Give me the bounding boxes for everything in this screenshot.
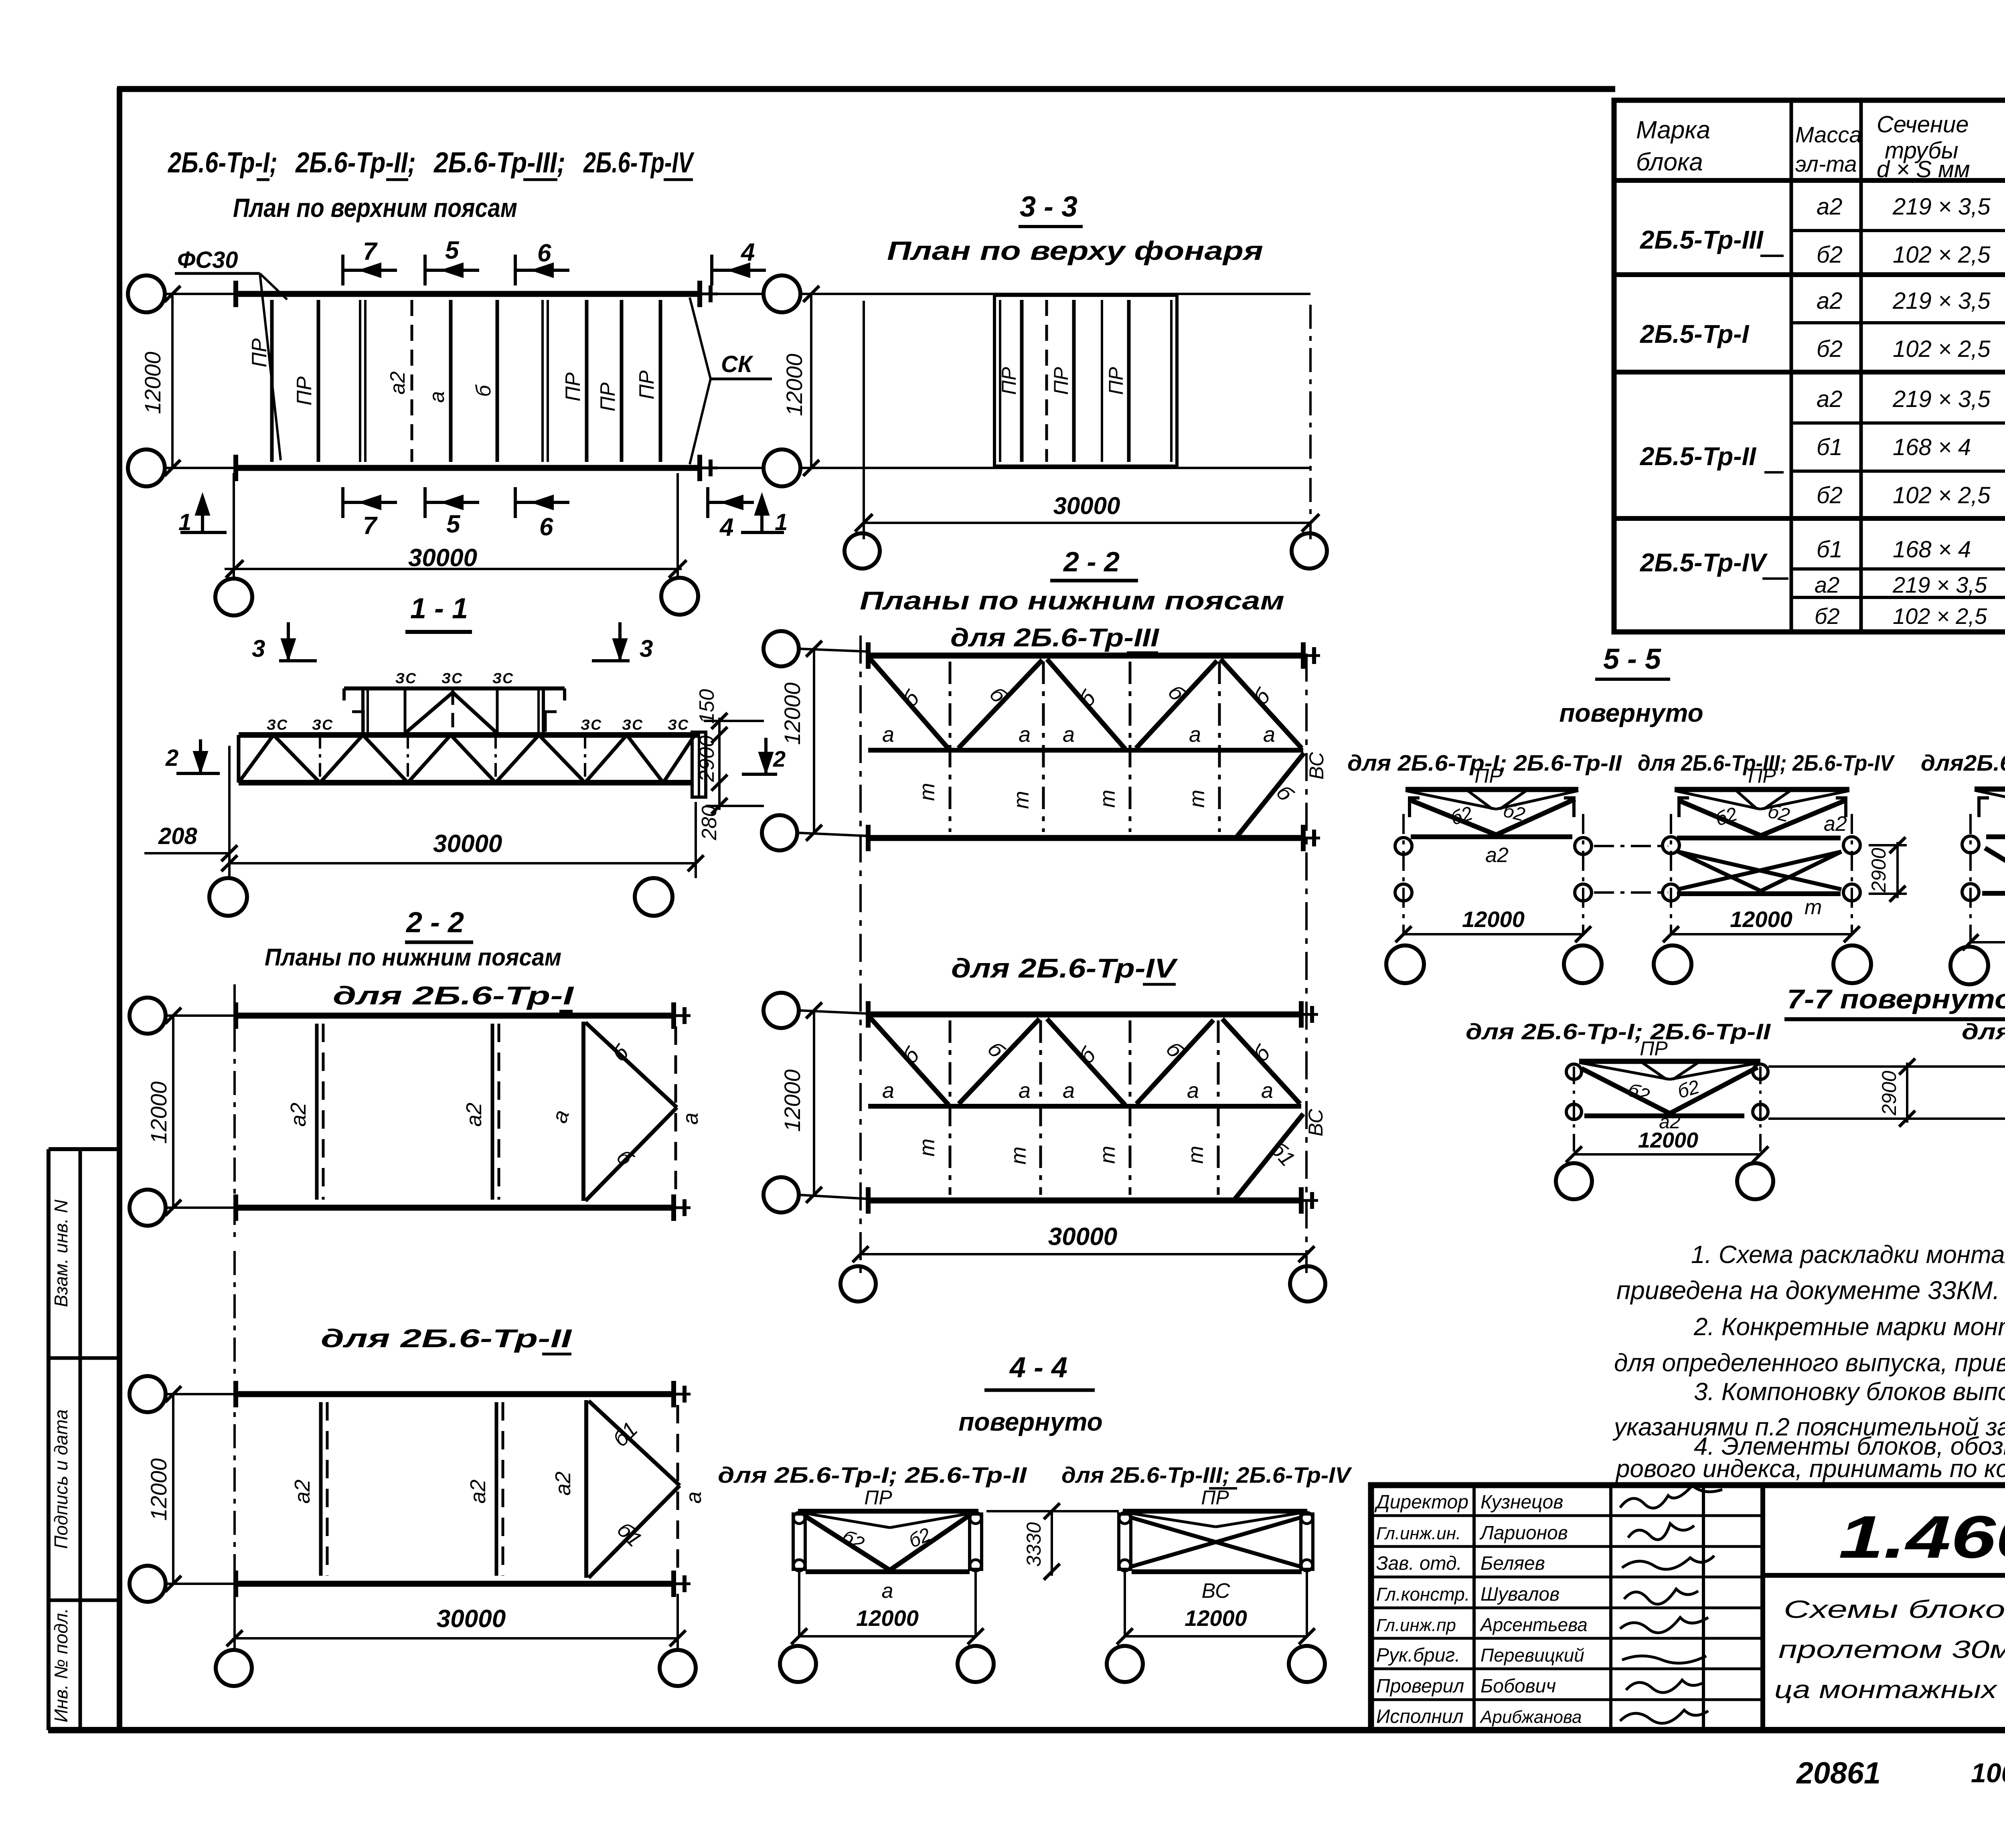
svg-text:Ларионов: Ларионов	[1479, 1522, 1568, 1544]
svg-text:б: б	[472, 385, 495, 397]
svg-text:3: 3	[640, 635, 653, 662]
svg-text:4: 4	[719, 514, 733, 541]
right dim 150 2900 280	[704, 713, 764, 814]
left axis circles	[764, 631, 799, 666]
end symbols	[866, 1001, 871, 1028]
lantern corner brackets	[352, 712, 363, 732]
svg-text:а2: а2	[1485, 844, 1509, 867]
3330 dim	[986, 1503, 1119, 1580]
svg-text:т: т	[1804, 896, 1822, 919]
svg-text:ЗС: ЗС	[622, 717, 644, 733]
svg-text:2Б.5-Тр-I: 2Б.5-Тр-I	[1640, 320, 1750, 348]
svg-text:для 2Б.6-Тр-IV: для 2Б.6-Тр-IV	[951, 953, 1179, 984]
SK leader	[711, 378, 772, 381]
svg-text:б2: б2	[1817, 482, 1843, 508]
svg-text:а2: а2	[286, 1103, 310, 1127]
svg-text:168 × 4: 168 × 4	[1893, 536, 1971, 563]
svg-text:3 - 3: 3 - 3	[1020, 191, 1077, 223]
svg-text:ВС: ВС	[1304, 1109, 1327, 1136]
svg-text:2 - 2: 2 - 2	[405, 907, 464, 939]
svg-text:2: 2	[165, 745, 178, 771]
svg-text:блока: блока	[1636, 148, 1703, 176]
svg-text:3: 3	[252, 635, 265, 662]
svg-text:1: 1	[775, 509, 788, 535]
svg-text:ЗС: ЗС	[492, 670, 514, 686]
svg-text:Исполнил: Исполнил	[1376, 1706, 1464, 1727]
svg-text:ЗС: ЗС	[442, 670, 463, 686]
dim lines left	[165, 293, 236, 295]
svg-text:а: а	[1019, 723, 1031, 747]
long axes	[859, 636, 862, 1273]
grid circle left bottom	[764, 449, 800, 486]
svg-text:102 × 2,5: 102 × 2,5	[1893, 603, 1987, 629]
svg-text:12000: 12000	[780, 682, 805, 745]
svg-text:т: т	[915, 1139, 939, 1157]
svg-text:ПР: ПР	[596, 383, 620, 412]
svg-text:1. Схема раскладки монтажных: 1. Схема раскладки монтажных блоков покр…	[1691, 1241, 2005, 1269]
top chord	[868, 653, 1303, 659]
lantern box edges	[993, 294, 996, 468]
svg-text:6: 6	[537, 239, 551, 267]
svg-text:ПР: ПР	[293, 376, 316, 406]
svg-text:ЗС: ЗС	[668, 717, 689, 733]
svg-text:а: а	[1189, 723, 1201, 747]
svg-text:Марка: Марка	[1636, 116, 1710, 144]
svg-text:а2: а2	[551, 1472, 575, 1496]
svg-text:а: а	[425, 391, 449, 403]
svg-text:а2: а2	[290, 1480, 314, 1504]
svg-text:ПР: ПР	[248, 338, 271, 368]
svg-text:Гл.констр.: Гл.констр.	[1376, 1584, 1470, 1605]
svg-text:Арибжанова: Арибжанова	[1479, 1707, 1582, 1727]
svg-text:7: 7	[363, 238, 378, 265]
svg-text:для 2Б.6-Тр-III; 2Б.6-Тр-IV: для 2Б.6-Тр-III; 2Б.6-Тр-IV	[1061, 1462, 1353, 1488]
svg-text:219 × 3,5: 219 × 3,5	[1892, 194, 1991, 220]
svg-text:30000: 30000	[433, 830, 502, 858]
svg-text:Арсентьева: Арсентьева	[1479, 1614, 1588, 1635]
section 3 markers	[279, 622, 630, 661]
svg-text:7-7 повернуто: 7-7 повернуто	[1787, 984, 2005, 1014]
svg-text:100: 100	[1971, 1758, 2005, 1788]
svg-text:а: а	[1187, 1079, 1199, 1103]
svg-text:Гл.инж.ин.: Гл.инж.ин.	[1376, 1524, 1461, 1543]
svg-text:Схемы блоков 2Б.6-Тр: Схемы блоков 2Б.6-Тр	[1784, 1596, 2005, 1623]
svg-text:ПР: ПР	[1474, 765, 1503, 787]
marker 2	[742, 738, 777, 774]
svg-text:Взам. инв. N: Взам. инв. N	[51, 1199, 71, 1307]
svg-text:приведена на документе 33КМ.: приведена на документе 33КМ.	[1616, 1276, 2000, 1305]
svg-text:5: 5	[446, 510, 461, 538]
mid chord a	[868, 748, 1303, 753]
truss top chord	[239, 732, 699, 738]
circles below	[845, 533, 880, 569]
svg-text:для 2Б.6-Тр-II: для 2Б.6-Тр-II	[321, 1324, 572, 1353]
svg-text:Перевицкий: Перевицкий	[1480, 1645, 1584, 1666]
svg-text:а: а	[1063, 1079, 1075, 1103]
svg-text:б2: б2	[1817, 242, 1843, 268]
svg-text:12000: 12000	[1185, 1605, 1247, 1631]
svg-text:ПР: ПР	[1640, 1037, 1668, 1060]
grid circle left top	[764, 275, 800, 312]
svg-text:т: т	[1007, 1147, 1031, 1165]
verticals	[949, 1020, 952, 1195]
svg-text:219 × 3,5: 219 × 3,5	[1892, 572, 1987, 597]
svg-text:102 × 2,5: 102 × 2,5	[1893, 336, 1991, 362]
top chord	[236, 1013, 674, 1019]
svg-text:2 - 2: 2 - 2	[1063, 546, 1120, 577]
svg-text:ЗС: ЗС	[267, 717, 288, 733]
axis dashdot	[233, 1251, 236, 1644]
svg-text:для 2Б.6-Тр-III: для 2Б.6-Тр-III	[950, 623, 1159, 652]
svg-text:а: а	[882, 1579, 893, 1603]
svg-text:Зав. отд.: Зав. отд.	[1376, 1553, 1462, 1574]
svg-text:б2: б2	[1817, 336, 1843, 362]
svg-text:т: т	[1184, 1146, 1208, 1164]
svg-text:Инв. № подл.: Инв. № подл.	[51, 1608, 71, 1722]
svg-text:30000: 30000	[1053, 492, 1120, 519]
end symbols	[233, 1002, 238, 1029]
svg-text:План по верхним поясам: План по верхним поясам	[233, 193, 517, 223]
svg-text:для определенного выпуска, при: для определенного выпуска, приведены на …	[1614, 1349, 2005, 1377]
svg-text:ПР: ПР	[1050, 367, 1072, 395]
svg-text:ЗС: ЗС	[581, 717, 602, 733]
svg-text:а: а	[678, 1113, 703, 1125]
svg-text:Проверил: Проверил	[1376, 1676, 1464, 1697]
svg-text:280: 280	[698, 806, 721, 841]
lantern braces	[405, 692, 453, 733]
svg-text:СК: СК	[721, 351, 753, 377]
svg-text:2. Конкретные марки монтажных: 2. Конкретные марки монтажных блоков, пр…	[1693, 1313, 2005, 1341]
svg-text:т: т	[1009, 791, 1033, 809]
chord end symbols	[233, 281, 238, 307]
grid circles	[130, 1376, 166, 1412]
title block outer	[1371, 1485, 2005, 1730]
grid circle A-left-top	[128, 275, 165, 312]
svg-text:ПР: ПР	[864, 1486, 892, 1509]
triangle web	[581, 1022, 585, 1201]
right dashed edge	[674, 1026, 677, 1197]
table outer border	[1614, 100, 2005, 632]
svg-text:а2: а2	[462, 1103, 486, 1127]
svg-text:12000: 12000	[1730, 907, 1792, 932]
svg-text:а: а	[882, 1079, 894, 1103]
svg-text:т: т	[1096, 1146, 1120, 1164]
grid lines	[800, 293, 1310, 295]
svg-text:а2: а2	[1817, 386, 1843, 412]
a2 verticals	[315, 1024, 319, 1200]
frame top border	[117, 86, 1615, 92]
svg-text:6: 6	[539, 513, 553, 541]
svg-text:2Б.6-Тр-IV: 2Б.6-Тр-IV	[583, 147, 695, 179]
svg-text:ПР: ПР	[1105, 367, 1127, 395]
svg-text:т: т	[1185, 790, 1209, 808]
svg-text:12000: 12000	[140, 352, 165, 414]
svg-text:ПР: ПР	[1201, 1486, 1229, 1509]
svg-text:План по верху фонаря: План по верху фонаря	[887, 236, 1263, 265]
svg-text:4 - 4: 4 - 4	[1009, 1352, 1067, 1384]
svg-text:168 × 4: 168 × 4	[1893, 434, 1971, 460]
svg-text:Гл.инж.пр: Гл.инж.пр	[1376, 1615, 1456, 1635]
section markers top	[343, 255, 766, 285]
frame left border	[117, 87, 122, 1730]
svg-text:2Б.5-Тр-III: 2Б.5-Тр-III	[1640, 225, 1764, 254]
svg-text:1.460.3-19-74КМ: 1.460.3-19-74КМ	[1839, 1503, 2005, 1571]
svg-text:ПР: ПР	[998, 367, 1020, 395]
end symbols	[233, 1381, 238, 1407]
truss bottom chord	[239, 780, 693, 785]
bottom chord	[868, 835, 1303, 841]
svg-text:5 - 5: 5 - 5	[1603, 643, 1661, 675]
svg-text:7: 7	[363, 512, 378, 540]
svg-text:для 2Б.6-Тр-III ; 2Б.6-Тр-: для 2Б.6-Тр-III ; 2Б.6-Тр-IV	[1962, 1019, 2005, 1044]
svg-text:2900: 2900	[1878, 1071, 1900, 1115]
svg-text:2: 2	[773, 746, 786, 771]
svg-text:3330: 3330	[1023, 1522, 1045, 1567]
svg-text:4: 4	[740, 239, 755, 266]
doc number cell	[1763, 1573, 2005, 1578]
svg-text:Бобович: Бобович	[1480, 1676, 1556, 1697]
svg-text:2Б.5-Тр-IV: 2Б.5-Тр-IV	[1640, 548, 1768, 577]
svg-text:Подпись и дата: Подпись и дата	[51, 1409, 71, 1549]
column lines	[1790, 100, 1793, 632]
bottom chord	[236, 465, 700, 471]
purlin lines	[270, 300, 274, 462]
svg-text:т: т	[1096, 790, 1120, 808]
title block rows	[1371, 1514, 1763, 1517]
svg-text:эл-та: эл-та	[1795, 151, 1857, 176]
svg-text:102 × 2,5: 102 × 2,5	[1893, 242, 1991, 268]
svg-text:1: 1	[178, 509, 191, 535]
web verticals	[319, 735, 321, 783]
svg-text:а: а	[1263, 723, 1275, 747]
svg-text:219 × 3,5: 219 × 3,5	[1892, 386, 1991, 412]
svg-text:2900: 2900	[1867, 848, 1890, 893]
mid chord	[868, 1104, 1301, 1109]
svg-text:2Б.6-Тр-II;: 2Б.6-Тр-II;	[295, 147, 416, 179]
diagonals b	[869, 658, 949, 749]
FS30 leader	[175, 272, 260, 275]
svg-text:а2: а2	[1815, 572, 1839, 597]
svg-text:ВС: ВС	[1305, 752, 1328, 779]
dim 208 and 30000	[144, 746, 704, 878]
grid circle A-left-bottom	[128, 449, 165, 486]
bottom chord	[236, 1581, 674, 1587]
top chord	[236, 291, 700, 297]
circles below	[215, 579, 252, 615]
stamp boxes	[47, 1149, 51, 1730]
dim lines	[166, 1014, 236, 1017]
lantern purlins	[1020, 300, 1024, 462]
svg-text:а: а	[1019, 1079, 1031, 1103]
svg-text:а2: а2	[1817, 288, 1843, 314]
lantern verticals	[361, 690, 365, 735]
svg-text:Беляев: Беляев	[1480, 1553, 1545, 1574]
svg-text:2Б.5-Тр-II: 2Б.5-Тр-II	[1640, 442, 1756, 471]
svg-text:т: т	[915, 783, 939, 801]
svg-text:208: 208	[158, 823, 198, 849]
svg-text:12000: 12000	[1638, 1128, 1698, 1152]
svg-text:Директор: Директор	[1374, 1492, 1468, 1513]
a2 verticals	[319, 1402, 323, 1576]
30000 dim	[863, 301, 865, 539]
svg-text:ПР: ПР	[1748, 765, 1776, 787]
bottom chord	[236, 1205, 674, 1211]
svg-text:20861: 20861	[1796, 1756, 1881, 1790]
30000 dim	[233, 473, 235, 579]
svg-text:30000: 30000	[1048, 1223, 1117, 1251]
lantern top	[344, 686, 565, 690]
diagonals	[869, 1017, 949, 1105]
web diagonals	[239, 735, 694, 783]
svg-text:ФС30: ФС30	[177, 247, 238, 273]
svg-text:2Б.6-Тр-III;: 2Б.6-Тр-III;	[433, 147, 565, 179]
svg-text:для 2Б.6-Тр-I; 2Б.6-Тр-II: для 2Б.6-Тр-I; 2Б.6-Тр-II	[718, 1462, 1027, 1488]
svg-text:30000: 30000	[437, 1605, 506, 1633]
svg-text:2900: 2900	[695, 735, 719, 782]
svg-text:ЗС: ЗС	[395, 670, 417, 686]
svg-text:102 × 2,5: 102 × 2,5	[1893, 482, 1991, 508]
svg-text:для 2Б.6-Тр-I: для 2Б.6-Тр-I	[333, 981, 574, 1010]
2900 dim between	[1768, 1059, 2005, 1127]
svg-text:а2: а2	[466, 1480, 490, 1504]
svg-text:Шувалов: Шувалов	[1480, 1584, 1559, 1605]
30000 dim	[861, 1253, 1306, 1255]
svg-text:рового индекса, принимать по к: рового индекса, принимать по конкретному…	[1615, 1455, 2005, 1483]
svg-text:б1: б1	[1817, 536, 1843, 563]
svg-text:а2: а2	[386, 371, 409, 395]
svg-text:12000: 12000	[856, 1605, 919, 1631]
svg-text:пролетом 30м и табли-: пролетом 30м и табли-	[1778, 1636, 2005, 1664]
title block columns	[1472, 1485, 1476, 1730]
svg-text:а: а	[1261, 1079, 1273, 1103]
svg-text:Рук.бриг.: Рук.бриг.	[1376, 1645, 1460, 1666]
top chord	[236, 1391, 674, 1397]
svg-text:150: 150	[695, 689, 719, 724]
grid circles	[130, 998, 166, 1034]
svg-text:а: а	[1063, 723, 1075, 747]
svg-text:а: а	[682, 1492, 706, 1504]
svg-text:ВС: ВС	[1201, 1579, 1230, 1603]
svg-text:219 × 3,5: 219 × 3,5	[1892, 288, 1991, 314]
svg-text:2Б.6-Тр-I;: 2Б.6-Тр-I;	[167, 147, 277, 179]
svg-text:б1: б1	[1817, 434, 1843, 460]
svg-text:а: а	[882, 723, 894, 747]
web verticals dashdot	[949, 662, 952, 832]
svg-text:для2Б.6-Тр-I;2Б.6-Тр-II: для2Б.6-Тр-I;2Б.6-Тр-II	[1921, 750, 2005, 775]
axis dashdot	[233, 984, 236, 1239]
right stub lines to grid circles	[718, 293, 764, 295]
top chord	[868, 1012, 1301, 1018]
svg-text:1 - 1: 1 - 1	[410, 593, 468, 625]
svg-text:Сечение: Сечение	[1877, 111, 1969, 138]
circles below 1-1	[209, 878, 247, 916]
bottom chord	[868, 1198, 1301, 1204]
end symbols	[866, 642, 871, 669]
svg-text:12000: 12000	[782, 354, 807, 416]
triangle web	[584, 1400, 588, 1578]
row dividers	[1791, 229, 2005, 232]
svg-text:d × S мм: d × S мм	[1877, 156, 1970, 182]
svg-text:ЗС: ЗС	[312, 717, 334, 733]
svg-text:повернуто: повернуто	[1559, 698, 1703, 727]
svg-text:5: 5	[445, 237, 460, 264]
frame bottom border	[48, 1727, 2005, 1733]
30000 dim	[233, 1594, 236, 1652]
svg-text:б2: б2	[1815, 603, 1840, 629]
end plate	[692, 732, 706, 797]
svg-text:для 2Б.6-Тр-I; 2Б.6-Тр-II: для 2Б.6-Тр-I; 2Б.6-Тр-II	[1466, 1019, 1771, 1044]
svg-text:ПР: ПР	[561, 372, 585, 402]
svg-text:а2: а2	[1817, 194, 1843, 220]
svg-text:Планы по нижним поясам: Планы по нижним поясам	[265, 944, 561, 971]
svg-text:Кузнецов: Кузнецов	[1480, 1492, 1563, 1513]
svg-text:повернуто: повернуто	[958, 1407, 1102, 1436]
svg-text:Масса: Масса	[1795, 122, 1862, 147]
section 2 markers	[176, 739, 220, 773]
svg-text:ца монтажных элементов: ца монтажных элементов	[1774, 1676, 2005, 1704]
svg-text:12000: 12000	[780, 1069, 805, 1132]
svg-text:30000: 30000	[408, 544, 477, 572]
section markers bottom	[180, 487, 784, 532]
svg-text:12000: 12000	[146, 1081, 171, 1144]
svg-text:12000: 12000	[1462, 907, 1525, 932]
12000 dim vertical	[810, 294, 812, 468]
svg-text:12000: 12000	[146, 1458, 171, 1521]
svg-text:3. Компоновку блоков выполнят: 3. Компоновку блоков выполнять в соответ…	[1694, 1378, 2005, 1406]
svg-text:ПР: ПР	[635, 370, 658, 400]
signatures	[1620, 1486, 1722, 1723]
svg-text:а2: а2	[1824, 812, 1847, 836]
svg-text:Планы по нижним поясам: Планы по нижним поясам	[860, 586, 1284, 615]
